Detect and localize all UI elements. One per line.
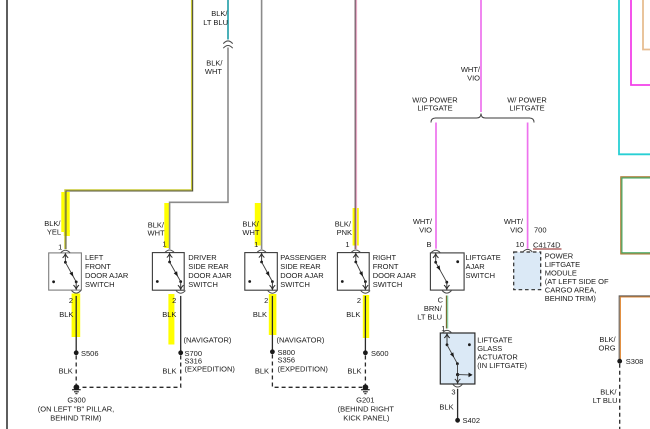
label WHT/VIO 700 (right branch) [504,217,547,234]
ground G201 [361,384,370,393]
svg-text:10: 10 [516,240,524,249]
component label right front door ajar switch [373,253,417,289]
component passenger side rear door ajar switch [245,250,277,293]
ground G300 [72,384,81,393]
ground label G300 [38,396,114,423]
svg-text:FRONT: FRONT [85,262,111,271]
wire WHT/VIO w/o power liftgate branch to liftgate ajar switch pin B [435,123,437,249]
component driver side rear door ajar switch [152,250,185,293]
svg-text:S308: S308 [626,357,644,366]
wire tan corner top right [643,0,650,50]
svg-text:(NAVIGATOR): (NAVIGATOR) [277,335,325,344]
wire BLK/PNK from top to right front door ajar switch pin 1 [355,0,356,249]
svg-text:SWITCH: SWITCH [280,280,310,289]
svg-text:DOOR AJAR: DOOR AJAR [85,271,129,280]
svg-text:S506: S506 [81,349,99,358]
wire BLK dashed S506 to G300 [75,356,77,386]
svg-text:AJAR: AJAR [466,262,486,271]
svg-text:1: 1 [162,240,166,249]
svg-text:C: C [438,295,444,304]
wire BLK dashed S700 to G300 (corner) [80,356,181,388]
wire BLK dashed S600 to G201 [364,356,366,386]
label BLK/LT BLU (bottom right) [593,387,618,404]
wire BLK dashed S800 to G201 (corner) [272,355,362,388]
svg-text:WHT: WHT [148,229,165,238]
svg-text:BLK: BLK [59,310,73,319]
svg-text:C4174D: C4174D [533,241,561,250]
label BLK (passenger rear lower) [253,310,267,319]
pin 1 actuator [441,324,445,333]
component label passenger side rear door ajar switch [280,253,327,289]
svg-text:LEFT: LEFT [85,253,104,262]
svg-text:G201: G201 [356,396,374,405]
wire BLK passenger side rear switch pin 2 to S800 [271,296,273,350]
ground label G201 [338,396,395,423]
component liftgate ajar switch [430,250,464,293]
svg-text:BLK: BLK [253,310,267,319]
svg-text:KICK PANEL): KICK PANEL) [343,413,390,422]
svg-text:BEHIND TRIM): BEHIND TRIM) [50,413,102,422]
wire BRN/LT BLU from liftgate ajar switch pin C to actuator pin 1 [446,296,447,329]
svg-text:1: 1 [254,240,258,249]
splice S800 / S356 [270,349,275,354]
highlighter mark beside BLK/WHT wire above driver side rear switch [164,203,170,248]
highlighter mark over BLK wire below right front switch [363,295,369,338]
svg-text:BEHIND TRIM): BEHIND TRIM) [545,294,597,303]
label BLK/PNK [335,220,352,237]
pin 1 driver side rear [162,240,166,249]
svg-text:VIO: VIO [510,225,523,234]
highlighter mark over BLK/YEL wire above left front switch [61,192,70,236]
svg-text:(ON LEFT "B" PILLAR,: (ON LEFT "B" PILLAR, [38,405,114,414]
svg-text:SIDE REAR: SIDE REAR [188,262,229,271]
splice label S308 [626,357,644,366]
label BLK/WHT (driver side rear) [148,220,165,237]
svg-text:RIGHT: RIGHT [373,253,397,262]
highlighter mark over BLK/PNK wire above right front switch [353,208,359,246]
wire olive-green open rectangle at right edge [621,177,650,254]
pin 2 driver side rear [172,296,176,305]
svg-text:(NAVIGATOR): (NAVIGATOR) [184,335,232,344]
wire WHT/VIO 700 w/ power liftgate branch to power liftgate module pin 10 [527,123,529,249]
svg-text:DOOR AJAR: DOOR AJAR [280,271,324,280]
svg-text:2: 2 [172,296,176,305]
splice S600 [363,350,368,355]
wire BLK/LT BLU from top to in-line connector [227,0,229,40]
svg-text:2: 2 [264,296,268,305]
svg-text:SWITCH: SWITCH [85,280,115,289]
highlighter mark over BLK wire below passenger side rear switch [269,294,277,335]
svg-text:LIFTGATE: LIFTGATE [509,103,544,112]
label BLK (actuator bottom) [439,402,453,411]
label BLK (driver rear lower) [162,310,176,319]
svg-text:S402: S402 [463,416,481,425]
label BLK (passenger rear bottom) [255,367,269,376]
splice label S600 [371,349,389,358]
svg-text:SWITCH: SWITCH [373,280,403,289]
svg-text:3: 3 [451,387,455,396]
svg-text:BLK: BLK [162,310,176,319]
highlighter mark over BLK/WHT wire above passenger side rear switch [255,203,261,246]
svg-text:(BEHIND RIGHT: (BEHIND RIGHT [338,405,395,414]
svg-text:ORG: ORG [599,343,616,352]
svg-text:G300: G300 [67,396,85,405]
highlighter mark over BLK wire below left front switch [72,294,81,338]
svg-text:DOOR AJAR: DOOR AJAR [373,271,417,280]
svg-text:2: 2 [69,296,73,305]
svg-text:S600: S600 [371,349,389,358]
label BLK (left front bottom) [59,367,73,376]
pin 10 power liftgate module [516,240,524,249]
svg-text:WHT: WHT [242,228,259,237]
pin C liftgate ajar switch [438,295,444,304]
pin 2 passenger side rear [264,296,268,305]
svg-text:LT BLU: LT BLU [203,18,228,27]
svg-text:2: 2 [357,296,361,305]
wire BLK/WHT from top to passenger side rear door ajar switch pin 1 [261,0,263,249]
component right front door ajar switch [337,250,370,293]
label BLK (driver rear bottom) [162,367,176,376]
label WHT/VIO (left branch) [413,217,433,234]
pin 2 right front [357,296,361,305]
label BRN/LT BLU [417,304,442,322]
svg-text:LIFTGATE: LIFTGATE [466,253,501,262]
svg-text:BLK: BLK [162,367,176,376]
pin 1 left front [58,243,62,252]
svg-text:BLK: BLK [255,367,269,376]
wire cyan corner top right [619,0,650,154]
brace splitting WHT/VIO into w/o and w/ power liftgate branches [431,114,534,123]
svg-text:WHT: WHT [205,67,222,76]
component label liftgate ajar switch [466,253,501,280]
svg-text:YEL: YEL [47,227,61,236]
wire BLK/ORG brown from right edge down to S308 [619,296,650,360]
svg-text:DRIVER: DRIVER [188,253,217,262]
svg-text:(EXPEDITION): (EXPEDITION) [185,365,236,374]
splice S506 [74,350,79,355]
component power liftgate module U1 (dashed) [514,249,541,289]
pin 1 right front [345,240,349,249]
component label driver side rear door ajar switch [188,253,232,289]
svg-text:LT BLU: LT BLU [593,396,618,405]
splice S700 / S316 [178,350,183,355]
svg-text:B: B [426,240,431,249]
component label left front door ajar switch [85,253,129,289]
svg-text:SWITCH: SWITCH [466,271,496,280]
svg-text:PASSENGER: PASSENGER [280,253,327,262]
label BLK/ORG [599,335,617,352]
component left front door ajar switch [49,250,82,293]
label W/ POWER LIFTGATE [507,95,547,112]
svg-text:SWITCH: SWITCH [188,280,218,289]
svg-text:BLK/: BLK/ [211,9,228,18]
svg-text:DOOR AJAR: DOOR AJAR [188,271,232,280]
wire WHT/VIO trunk from top to brace [480,0,482,112]
label BLK/LT BLU (top) [203,9,228,27]
label BLK/WHT (passenger side rear) [242,220,259,237]
component label liftgate glass actuator [477,335,527,370]
svg-text:700: 700 [534,225,547,234]
wire BLK left front switch pin 2 to S506 [75,296,77,351]
svg-text:SIDE REAR: SIDE REAR [280,262,321,271]
wire magenta corner top right [631,0,650,85]
label BLK/YEL [44,219,61,236]
wire BLK driver side rear switch pin 2 to S700 [180,296,182,351]
wire BLK vertical at left edge [6,0,8,429]
svg-text:S356: S356 [278,356,296,365]
wire BLK/YEL from top to left front door ajar switch pin 1 [65,0,193,249]
label BLK/WHT (below connector) [205,59,223,76]
pin 3 actuator [451,387,455,396]
svg-text:LT BLU: LT BLU [417,313,442,322]
label W/O POWER LIFTGATE [412,95,458,112]
wire BLK/WHT from connector to driver side rear door ajar switch pin 1 [170,48,228,250]
svg-text:LIFTGATE: LIFTGATE [417,103,452,112]
component liftgate glass actuator [440,330,475,387]
highlighter mark beside BLK wire below driver side rear switch [168,294,174,345]
wire BLK/LT BLU dashed below S308 [619,364,621,429]
splice labels (NAVIGATOR) S800 S356 (EXPEDITION) [277,335,329,373]
splice labels (NAVIGATOR) S700 S316 (EXPEDITION) [184,335,236,373]
svg-text:VIO: VIO [419,225,432,234]
splice S308 [617,359,622,364]
svg-text:BLK: BLK [347,367,361,376]
svg-text:(IN LIFTGATE): (IN LIFTGATE) [477,361,527,370]
in-line connector (two arc halves) [223,41,232,48]
svg-text:VIO: VIO [467,73,480,82]
connector C4174D [533,241,562,250]
label BLK (right front lower) [346,310,360,319]
svg-text:BLK: BLK [439,402,453,411]
svg-text:BLK: BLK [346,310,360,319]
pin 2 left front [69,296,73,305]
splice label S506 [81,349,99,358]
svg-text:(EXPEDITION): (EXPEDITION) [278,365,329,374]
svg-text:1: 1 [345,240,349,249]
svg-text:1: 1 [58,243,62,252]
wire BLK actuator pin 3 to S402 [457,389,459,419]
label BLK (left front lower) [59,310,73,319]
pin B liftgate ajar switch [426,240,431,249]
svg-text:BLK: BLK [59,367,73,376]
svg-text:PNK: PNK [337,228,352,237]
wire BLK right front switch pin 2 to S600 [364,296,366,351]
svg-text:FRONT: FRONT [373,262,399,271]
label BLK (right front bottom) [347,367,361,376]
pin 1 passenger side rear [254,240,258,249]
splice S402 [455,418,460,423]
splice label S402 [463,416,481,425]
label WHT/VIO (trunk) [461,65,481,82]
svg-text:1: 1 [441,324,445,333]
component label power liftgate module [545,251,609,303]
